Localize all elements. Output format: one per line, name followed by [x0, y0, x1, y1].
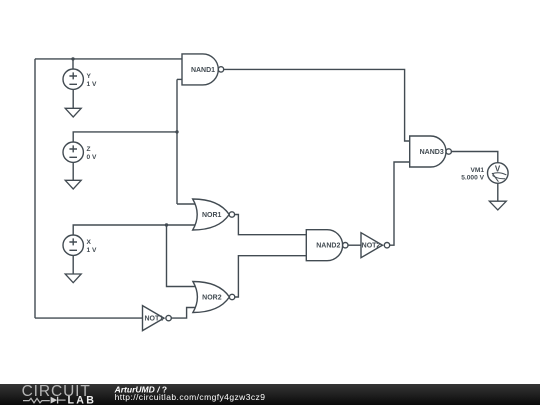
node junction Z tap: [175, 130, 178, 133]
svg-text:1 V: 1 V: [87, 81, 97, 88]
label Y 1 V: [87, 73, 97, 88]
svg-text:NAND1: NAND1: [191, 67, 215, 74]
wire net-Z to NAND1.B: [177, 78, 182, 80]
wire net-Y to NOT1 input: [35, 317, 143, 319]
wire net-Z to NOR1.A: [177, 203, 198, 205]
svg-text:5.000 V: 5.000 V: [461, 175, 484, 182]
svg-text:V: V: [495, 164, 501, 173]
NAND gate NAND1: [182, 54, 224, 85]
voltage source X: [63, 235, 83, 255]
ground under Z: [65, 180, 81, 189]
svg-text:NOT2: NOT2: [362, 243, 381, 250]
wire NAND3 out to VM1: [451, 152, 497, 163]
svg-text:LAB: LAB: [68, 395, 97, 405]
svg-text:NOR2: NOR2: [202, 295, 222, 302]
wire Y source bottom lead: [72, 89, 74, 108]
wire NAND2 out to NOT2 input: [348, 244, 361, 246]
logo resistor zigzag: [23, 398, 50, 402]
label VM1 5.000 V: [461, 167, 484, 182]
wire NAND1 out to NAND3.A: [224, 69, 410, 141]
NOT gate NOT2: [361, 233, 390, 258]
NOR gate NOR1: [193, 199, 235, 230]
svg-text:Z: Z: [87, 146, 91, 153]
voltage source Y: [63, 69, 83, 89]
ground under VM1: [489, 201, 506, 210]
wire NOR2 out to NAND2.B: [235, 256, 306, 297]
label X 1 V: [87, 239, 97, 254]
svg-text:NAND2: NAND2: [316, 243, 340, 250]
svg-text:Y: Y: [87, 73, 92, 80]
logo diode: [51, 397, 58, 404]
wire net-X to NOR1.B: [167, 224, 199, 226]
svg-text:VM1: VM1: [470, 167, 484, 174]
wire NOR1 out to NAND2.A: [235, 215, 307, 235]
wire net-X vertical to NOR2.A: [167, 225, 199, 287]
node junction Y tap: [71, 57, 74, 60]
svg-text:http://circuitlab.com/cmgfy4gz: http://circuitlab.com/cmgfy4gzw3cz9: [115, 392, 266, 402]
svg-text:1 V: 1 V: [87, 247, 97, 254]
ground under Y: [65, 108, 81, 117]
wire NOT1 out to NOR2.B: [171, 308, 198, 319]
wire Z source bottom lead: [72, 162, 74, 180]
svg-text:NOR1: NOR1: [202, 212, 222, 219]
wire NOT2 out to NAND3.B: [390, 162, 410, 245]
label Z 0 V: [87, 146, 97, 161]
wire net-Y left vertical: [34, 59, 36, 318]
wire X source top lead: [73, 225, 166, 235]
wire Y source top lead: [72, 59, 74, 69]
NOR gate NOR2: [193, 282, 235, 313]
wire Z source top lead: [73, 132, 177, 142]
svg-text:NOT1: NOT1: [144, 316, 163, 323]
wire net-Y top horizontal: [35, 58, 182, 60]
footer bar: [0, 384, 540, 405]
voltmeter VM1: [488, 163, 509, 184]
ground under X: [65, 274, 81, 283]
NAND gate NAND3: [410, 136, 452, 167]
svg-text:NAND3: NAND3: [420, 149, 444, 156]
wire net-Z vertical to NAND1.B and NOR1.A: [176, 79, 178, 204]
NOT gate NOT1: [143, 306, 172, 331]
svg-text:X: X: [87, 239, 92, 246]
svg-text:0 V: 0 V: [87, 154, 97, 161]
voltage source Z: [63, 142, 83, 162]
wire X source bottom lead: [72, 255, 74, 274]
node junction X tap: [165, 223, 168, 226]
NAND gate NAND2: [306, 230, 348, 261]
wire VM1 bottom lead: [497, 183, 499, 201]
